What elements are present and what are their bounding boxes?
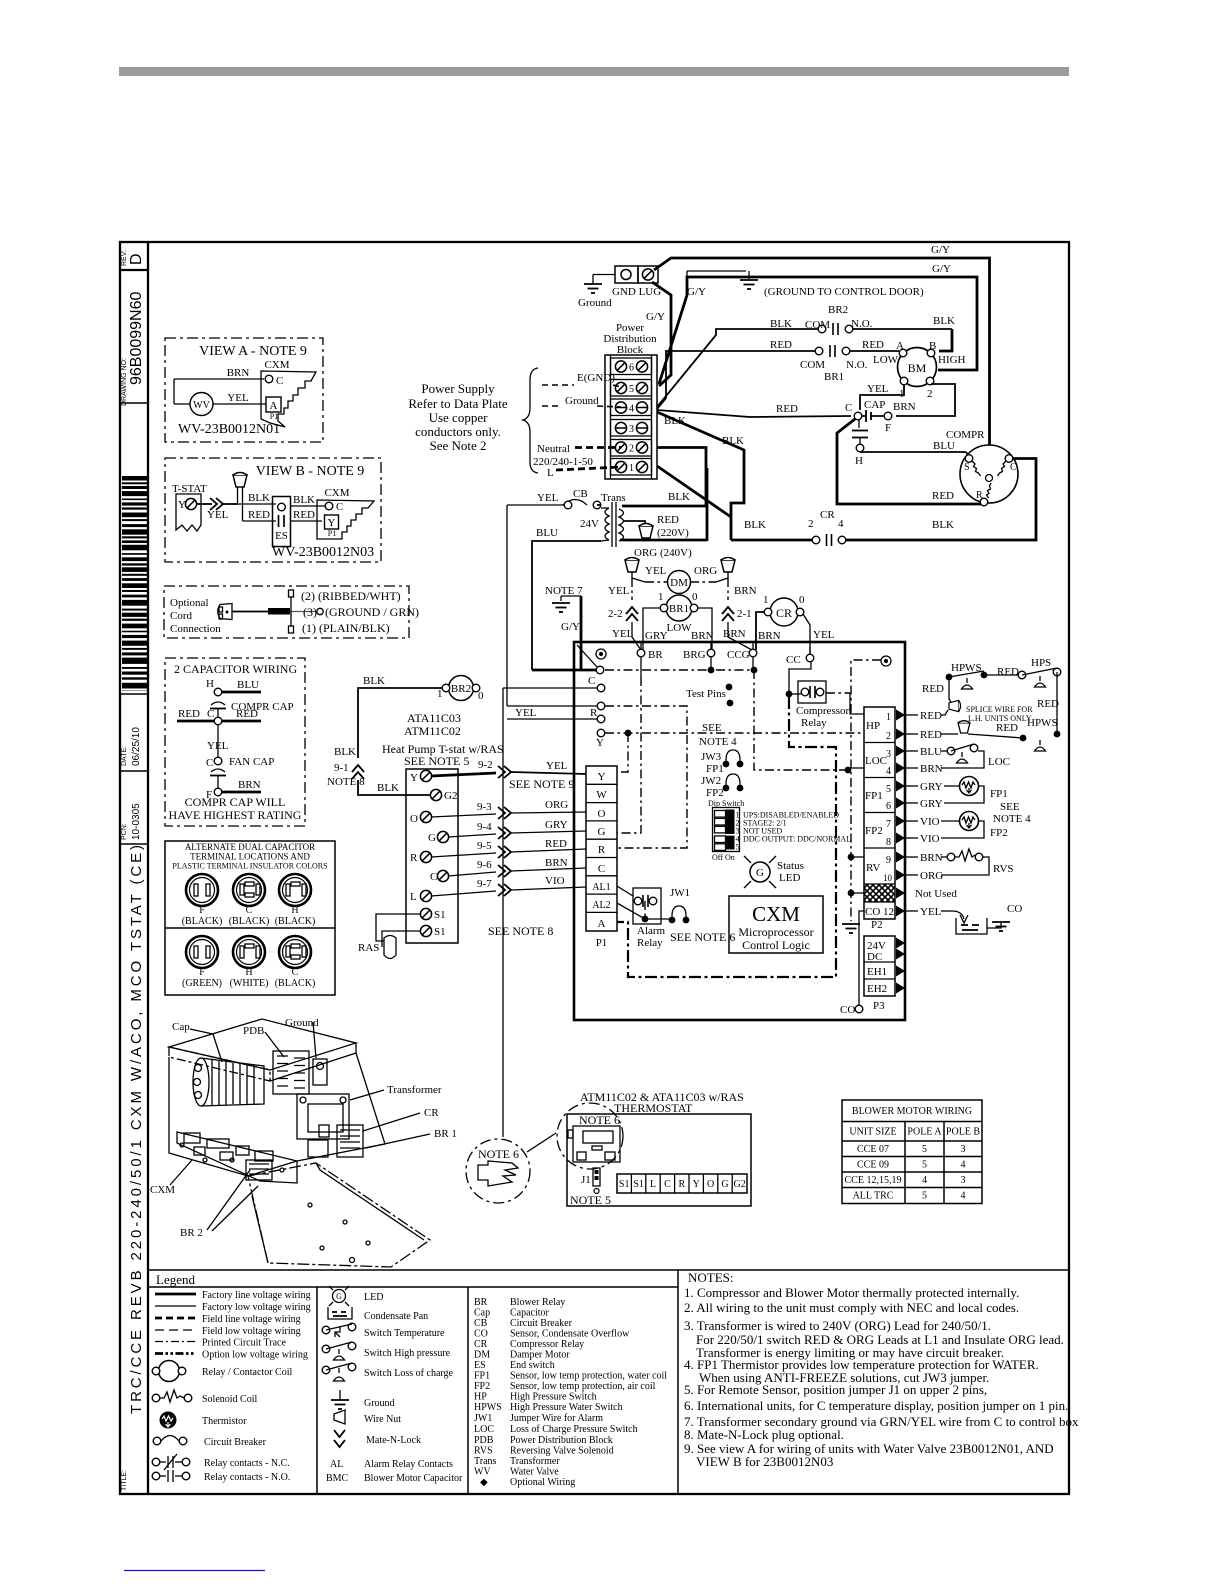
svg-text:Block: Block	[617, 344, 644, 356]
svg-text:CCE 12,15,19: CCE 12,15,19	[845, 1175, 902, 1186]
svg-text:BLU: BLU	[920, 746, 942, 758]
svg-text:Use copper: Use copper	[429, 410, 489, 425]
svg-text:JW1: JW1	[474, 1413, 492, 1424]
svg-text:CCG: CCG	[727, 649, 750, 661]
svg-text:Factory line voltage wiring: Factory line voltage wiring	[202, 1290, 311, 1301]
svg-text:2-1: 2-1	[737, 608, 752, 620]
svg-text:High Pressure Water Switch: High Pressure Water Switch	[510, 1402, 623, 1413]
svg-text:P1: P1	[596, 937, 608, 949]
svg-text:DRAWING NO:: DRAWING NO:	[121, 358, 128, 406]
svg-text:Condensate Pan: Condensate Pan	[364, 1311, 428, 1322]
svg-text:S: S	[964, 462, 970, 473]
svg-text:BRN: BRN	[545, 857, 568, 869]
svg-text:G/Y: G/Y	[687, 286, 706, 298]
svg-text:N.O.: N.O.	[851, 318, 873, 330]
svg-text:Relay: Relay	[801, 717, 827, 729]
svg-text:W: W	[596, 789, 607, 801]
svg-text:THERMOSTAT: THERMOSTAT	[614, 1101, 693, 1115]
svg-text:H: H	[855, 455, 863, 467]
svg-text:Sensor, Condensate Overflow: Sensor, Condensate Overflow	[510, 1329, 630, 1340]
svg-text:CC: CC	[786, 654, 801, 666]
svg-text:BLK: BLK	[334, 746, 356, 758]
svg-text:Optional Wiring: Optional Wiring	[510, 1477, 575, 1488]
svg-text:UNIT SIZE: UNIT SIZE	[849, 1127, 896, 1138]
svg-text:RED: RED	[657, 514, 679, 526]
svg-text:JW1: JW1	[670, 887, 690, 899]
svg-text:TITLE:: TITLE:	[121, 1470, 128, 1491]
svg-text:3: 3	[886, 749, 891, 760]
svg-text:YEL: YEL	[813, 629, 835, 641]
svg-text:REV:: REV:	[121, 250, 128, 266]
svg-text:H: H	[206, 678, 214, 690]
svg-text:5: 5	[629, 384, 634, 395]
svg-text:P1: P1	[328, 529, 336, 538]
svg-text:8: 8	[886, 837, 891, 848]
svg-text:F: F	[199, 905, 205, 916]
svg-text:Ground: Ground	[565, 395, 599, 407]
svg-text:WV-23B0012N03: WV-23B0012N03	[272, 545, 374, 560]
svg-text:C: C	[336, 501, 343, 513]
svg-text:5: 5	[736, 843, 740, 852]
svg-text:NOTES:: NOTES:	[688, 1270, 734, 1285]
svg-text:Switch Temperature: Switch Temperature	[364, 1328, 445, 1339]
svg-text:PCN:: PCN:	[121, 823, 128, 840]
svg-text:YEL: YEL	[920, 906, 942, 918]
svg-text:HAVE HIGHEST RATING: HAVE HIGHEST RATING	[169, 808, 302, 822]
svg-text:BRN: BRN	[920, 852, 943, 864]
svg-text:BLK: BLK	[664, 415, 686, 427]
svg-text:LED: LED	[364, 1292, 383, 1303]
svg-text:CAP: CAP	[864, 399, 885, 411]
svg-text:BR1: BR1	[669, 603, 689, 615]
svg-text:LOC: LOC	[865, 755, 887, 767]
svg-text:J1: J1	[581, 1174, 591, 1186]
svg-text:RED: RED	[862, 339, 884, 351]
svg-text:A: A	[598, 918, 606, 930]
svg-text:3: 3	[961, 1175, 966, 1186]
svg-text:Factory low voltage wiring: Factory low voltage wiring	[202, 1302, 311, 1313]
svg-text:CXM: CXM	[752, 902, 800, 926]
svg-text:HPWS: HPWS	[474, 1402, 502, 1413]
svg-text:Cap: Cap	[172, 1021, 190, 1033]
svg-text:G2: G2	[444, 790, 457, 802]
svg-text:O: O	[598, 808, 606, 820]
svg-text:2: 2	[927, 388, 933, 400]
svg-text:(BLACK): (BLACK)	[229, 916, 270, 927]
svg-text:BLOWER MOTOR WIRING: BLOWER MOTOR WIRING	[852, 1106, 972, 1117]
svg-text:06/25/10: 06/25/10	[131, 727, 142, 766]
svg-text:POLE B: POLE B	[946, 1127, 981, 1138]
svg-text:C: C	[664, 1179, 671, 1190]
svg-text:N.O.: N.O.	[846, 359, 868, 371]
svg-text:D: D	[128, 253, 145, 265]
svg-text:RVS: RVS	[474, 1446, 493, 1457]
svg-text:POLE A: POLE A	[907, 1127, 942, 1138]
svg-text:conductors only.: conductors only.	[415, 424, 501, 439]
svg-text:FP2: FP2	[474, 1381, 490, 1392]
svg-text:24V: 24V	[580, 518, 599, 530]
svg-text:PLASTIC TERMINAL INSULATOR COL: PLASTIC TERMINAL INSULATOR COLORS	[172, 862, 327, 871]
svg-text:Alarm: Alarm	[637, 925, 666, 937]
svg-text:COMPR: COMPR	[946, 429, 985, 441]
svg-text:0: 0	[692, 591, 698, 603]
svg-text:4: 4	[838, 518, 844, 530]
svg-text:C: C	[207, 708, 214, 720]
svg-text:VIEW B for 23B0012N03: VIEW B for 23B0012N03	[696, 1454, 833, 1469]
svg-text:A: A	[270, 400, 278, 412]
svg-text:Water Valve: Water Valve	[510, 1467, 559, 1478]
svg-text:L: L	[547, 467, 554, 479]
svg-text:PDB: PDB	[474, 1435, 494, 1446]
svg-text:BRN: BRN	[691, 630, 714, 642]
svg-text:BLK: BLK	[248, 492, 270, 504]
svg-text:HP: HP	[474, 1392, 487, 1403]
svg-text:R: R	[598, 844, 606, 856]
svg-text:RED: RED	[293, 509, 315, 521]
svg-text:YEL: YEL	[515, 707, 537, 719]
svg-text:0: 0	[799, 594, 805, 606]
svg-text:Y: Y	[598, 771, 606, 783]
svg-text:Loss of Charge Pressure Switch: Loss of Charge Pressure Switch	[510, 1424, 638, 1435]
svg-text:Trans: Trans	[601, 492, 626, 504]
svg-text:6: 6	[629, 363, 634, 374]
svg-text:C: C	[1010, 462, 1017, 473]
svg-text:2: 2	[886, 731, 891, 742]
svg-text:FP2: FP2	[865, 825, 883, 837]
svg-text:CR: CR	[820, 509, 835, 521]
svg-text:3: 3	[961, 1144, 966, 1155]
svg-text:SEE: SEE	[1000, 801, 1020, 813]
svg-text:G2: G2	[733, 1179, 745, 1190]
svg-text:YEL: YEL	[546, 760, 568, 772]
svg-text:Control Logic: Control Logic	[742, 938, 810, 952]
svg-text:(GROUND TO CONTROL DOOR): (GROUND TO CONTROL DOOR)	[764, 286, 924, 298]
svg-text:YEL: YEL	[207, 509, 229, 521]
svg-text:O: O	[410, 813, 418, 825]
svg-text:B: B	[929, 340, 936, 352]
svg-text:9-2: 9-2	[478, 759, 493, 771]
svg-text:3: 3	[629, 424, 634, 435]
svg-text:6. International units, for C: 6. International units, for C temperatur…	[684, 1398, 1068, 1413]
svg-text:LOW: LOW	[873, 354, 899, 366]
svg-text:Relay contacts - N.C.: Relay contacts - N.C.	[204, 1458, 290, 1469]
svg-text:GRY: GRY	[645, 630, 668, 642]
svg-text:VIO: VIO	[920, 816, 940, 828]
svg-text:Ground: Ground	[578, 297, 612, 309]
svg-text:4: 4	[629, 404, 634, 415]
svg-text:Circuit Breaker: Circuit Breaker	[204, 1437, 267, 1448]
svg-text:G: G	[721, 1179, 728, 1190]
svg-text:Microprocessor: Microprocessor	[738, 925, 813, 939]
svg-text:C: C	[292, 967, 299, 978]
svg-text:9-1: 9-1	[334, 762, 349, 774]
svg-text:BLU: BLU	[933, 440, 955, 452]
svg-text:Reversing Valve Solenoid: Reversing Valve Solenoid	[510, 1446, 614, 1457]
svg-text:SEE NOTE 8: SEE NOTE 8	[488, 924, 553, 938]
svg-text:Compressor: Compressor	[796, 705, 850, 717]
svg-text:P3: P3	[873, 1000, 885, 1012]
svg-text:CO: CO	[1007, 903, 1022, 915]
svg-text:Off On: Off On	[712, 853, 735, 862]
svg-text:Dip Switch: Dip Switch	[708, 799, 744, 808]
svg-text:L: L	[410, 891, 417, 903]
svg-text:BR: BR	[648, 649, 663, 661]
svg-text:LED: LED	[779, 872, 800, 884]
svg-text:NOTE 7: NOTE 7	[545, 585, 583, 597]
svg-text:4: 4	[922, 1175, 927, 1186]
svg-text:LOW: LOW	[666, 622, 692, 634]
svg-text:YEL: YEL	[608, 585, 630, 597]
svg-text:NOTE 8: NOTE 8	[327, 776, 365, 788]
svg-text:Switch Loss of charge: Switch Loss of charge	[364, 1368, 454, 1379]
svg-text:1: 1	[886, 712, 891, 723]
svg-text:Refer to Data Plate: Refer to Data Plate	[408, 396, 507, 411]
svg-text:SEE NOTE 9: SEE NOTE 9	[509, 777, 574, 791]
svg-text:9-5: 9-5	[477, 840, 492, 852]
svg-text:E(GND): E(GND)	[577, 372, 615, 384]
svg-text:96B0099N60: 96B0099N60	[128, 291, 145, 385]
svg-text:BLK: BLK	[668, 491, 690, 503]
svg-text:P1: P1	[270, 412, 278, 421]
svg-text:G: G	[336, 1292, 342, 1301]
svg-text:RVS: RVS	[993, 863, 1014, 875]
svg-text:YEL: YEL	[612, 628, 634, 640]
svg-text:DM: DM	[474, 1350, 490, 1361]
svg-text:RED: RED	[997, 666, 1019, 678]
svg-text:2. All wiring to the unit must: 2. All wiring to the unit must comply wi…	[684, 1300, 1019, 1315]
svg-text:Transformer: Transformer	[387, 1084, 442, 1096]
svg-text:Sensor, low temp protection, w: Sensor, low temp protection, water coil	[510, 1371, 667, 1382]
svg-text:L: L	[650, 1179, 656, 1190]
svg-text:JW2: JW2	[701, 775, 721, 787]
svg-text:Relay: Relay	[637, 937, 663, 949]
svg-text:A: A	[896, 340, 904, 352]
svg-text:5: 5	[922, 1191, 927, 1202]
svg-text:F: F	[199, 967, 205, 978]
svg-text:G: G	[428, 832, 436, 844]
svg-text:FP2: FP2	[990, 827, 1008, 839]
svg-text:WV: WV	[193, 400, 210, 411]
svg-text:COM: COM	[805, 319, 830, 331]
svg-text:BRN: BRN	[723, 628, 746, 640]
svg-text:Ground: Ground	[364, 1398, 395, 1409]
svg-text:7: 7	[886, 819, 891, 830]
svg-text:G/Y: G/Y	[646, 311, 665, 323]
svg-text:CO 12: CO 12	[865, 906, 894, 918]
svg-text:TERMINAL LOCATIONS AND: TERMINAL LOCATIONS AND	[190, 852, 310, 862]
svg-text:Status: Status	[777, 860, 804, 872]
svg-text:CR: CR	[776, 606, 792, 620]
svg-text:PDB: PDB	[243, 1025, 264, 1037]
svg-text:(WHITE): (WHITE)	[230, 978, 269, 989]
svg-text:BMC: BMC	[326, 1473, 349, 1484]
svg-text:RED: RED	[920, 710, 942, 722]
svg-text:(GROUND / GRN): (GROUND / GRN)	[325, 605, 419, 619]
svg-text:Y: Y	[328, 517, 336, 529]
svg-text:9-7: 9-7	[477, 878, 492, 890]
svg-text:BR 2: BR 2	[180, 1227, 203, 1239]
svg-text:(2) (RIBBED/WHT): (2) (RIBBED/WHT)	[301, 589, 401, 603]
svg-text:1. Compressor and Blower Motor: 1. Compressor and Blower Motor thermally…	[684, 1285, 1019, 1300]
svg-text:FP1: FP1	[990, 788, 1008, 800]
svg-text:GRY: GRY	[920, 781, 943, 793]
svg-text:AL: AL	[330, 1459, 343, 1470]
svg-text:RED: RED	[922, 683, 944, 695]
svg-text:2: 2	[629, 444, 634, 455]
svg-text:(1) (PLAIN/BLK): (1) (PLAIN/BLK)	[302, 621, 390, 635]
svg-text:ORG (240V): ORG (240V)	[634, 547, 692, 559]
svg-text:G/Y: G/Y	[932, 263, 951, 275]
svg-text:GND LUG: GND LUG	[612, 286, 661, 298]
svg-text:Connection: Connection	[170, 623, 221, 635]
svg-text:C: C	[845, 402, 852, 414]
svg-text:RED: RED	[770, 339, 792, 351]
svg-text:HP: HP	[866, 720, 880, 732]
svg-text:BR: BR	[474, 1297, 488, 1308]
svg-text:CCE 07: CCE 07	[857, 1144, 889, 1155]
svg-text:VIO: VIO	[545, 875, 565, 887]
svg-text:BLK: BLK	[377, 782, 399, 794]
svg-text:RAS: RAS	[358, 942, 379, 954]
svg-text:SEE NOTE 6: SEE NOTE 6	[670, 930, 735, 944]
svg-text:9-4: 9-4	[477, 821, 492, 833]
svg-text:(BLACK): (BLACK)	[275, 978, 316, 989]
svg-text:BR2: BR2	[828, 304, 848, 316]
svg-text:Transformer: Transformer	[510, 1456, 560, 1467]
svg-text:RED: RED	[920, 729, 942, 741]
svg-text:Field low voltage wiring: Field low voltage wiring	[202, 1326, 301, 1337]
svg-text:Thermistor: Thermistor	[202, 1416, 247, 1427]
svg-text:Trans: Trans	[474, 1456, 497, 1467]
svg-text:3. Transformer is wired to 240: 3. Transformer is wired to 240V (ORG) Le…	[684, 1318, 991, 1333]
svg-text:Mate-N-Lock: Mate-N-Lock	[366, 1435, 421, 1446]
svg-text:Blower Motor Capacitor: Blower Motor Capacitor	[364, 1473, 463, 1484]
svg-text:CB: CB	[573, 488, 588, 500]
svg-text:SEE NOTE 5: SEE NOTE 5	[404, 754, 469, 768]
svg-text:Circuit Breaker: Circuit Breaker	[510, 1318, 573, 1329]
svg-text:Legend: Legend	[156, 1272, 195, 1287]
svg-text:DM: DM	[670, 577, 688, 589]
svg-text:BRN: BRN	[734, 585, 757, 597]
svg-text:Compressor Relay: Compressor Relay	[510, 1339, 584, 1350]
svg-text:EH1: EH1	[867, 966, 887, 978]
svg-text:FP2: FP2	[706, 787, 724, 799]
svg-text:O: O	[707, 1179, 714, 1190]
svg-text:DATE:: DATE:	[121, 746, 128, 766]
svg-text:P2: P2	[871, 919, 883, 931]
svg-text:R: R	[410, 852, 418, 864]
svg-text:1: 1	[437, 688, 443, 700]
svg-text:BRG: BRG	[683, 649, 706, 661]
svg-text:BLK: BLK	[932, 519, 954, 531]
svg-text:JW3: JW3	[701, 751, 722, 763]
svg-text:9-3: 9-3	[477, 801, 492, 813]
svg-text:NOTE 6: NOTE 6	[579, 1113, 620, 1127]
svg-text:RV: RV	[866, 862, 880, 874]
svg-text:BLK: BLK	[293, 494, 315, 506]
svg-text:End switch: End switch	[510, 1360, 555, 1371]
svg-text:BRN: BRN	[238, 779, 261, 791]
svg-text:RED: RED	[932, 490, 954, 502]
svg-text:BRN: BRN	[758, 630, 781, 642]
svg-text:Printed Circuit Trace: Printed Circuit Trace	[202, 1338, 286, 1349]
svg-text:Damper Motor: Damper Motor	[510, 1350, 570, 1361]
svg-text:BM: BM	[908, 361, 927, 375]
svg-text:C: C	[598, 863, 605, 875]
svg-text:VIEW A - NOTE 9: VIEW A - NOTE 9	[199, 344, 307, 359]
svg-text:ORG: ORG	[545, 799, 568, 811]
svg-text:CCE 09: CCE 09	[857, 1160, 889, 1171]
svg-text:4: 4	[886, 766, 891, 777]
svg-text:BLK: BLK	[722, 435, 744, 447]
svg-text:EH2: EH2	[867, 983, 887, 995]
svg-text:4: 4	[961, 1191, 966, 1202]
svg-text:CXM: CXM	[324, 487, 349, 499]
svg-text:C: C	[430, 871, 437, 883]
svg-text:RED: RED	[236, 708, 258, 720]
svg-text:NOTE 4: NOTE 4	[993, 813, 1031, 825]
svg-text:R: R	[678, 1179, 685, 1190]
svg-text:CO: CO	[474, 1329, 488, 1340]
svg-text:BR1: BR1	[824, 371, 844, 383]
svg-text:GRY: GRY	[545, 819, 568, 831]
svg-text:S1: S1	[619, 1179, 630, 1190]
svg-text:CO: CO	[840, 1004, 855, 1016]
svg-text:YEL: YEL	[207, 740, 229, 752]
svg-text:CB: CB	[474, 1318, 488, 1329]
svg-text:BRN: BRN	[920, 763, 943, 775]
svg-text:BRN: BRN	[893, 401, 916, 413]
svg-text:10: 10	[883, 873, 893, 883]
svg-text:NOTE 5: NOTE 5	[570, 1193, 611, 1207]
svg-text:Neutral: Neutral	[537, 443, 570, 455]
svg-text:SEE: SEE	[702, 722, 722, 734]
svg-text:6: 6	[886, 801, 891, 812]
svg-text:(3): (3)	[303, 605, 317, 619]
svg-text:ALTERNATE DUAL CAPACITOR: ALTERNATE DUAL CAPACITOR	[185, 842, 315, 852]
svg-text:Sensor, low temp protection, a: Sensor, low temp protection, air coil	[510, 1381, 656, 1392]
svg-text:5: 5	[922, 1160, 927, 1171]
svg-text:S1: S1	[633, 1179, 644, 1190]
svg-text:2: 2	[808, 518, 814, 530]
svg-text:G: G	[598, 826, 606, 838]
svg-text:WV-23B0012N01: WV-23B0012N01	[178, 422, 280, 437]
svg-text:Cap: Cap	[474, 1308, 490, 1319]
svg-text:(BLACK): (BLACK)	[275, 916, 316, 927]
svg-text:COMPR CAP WILL: COMPR CAP WILL	[185, 795, 286, 809]
svg-text:H: H	[245, 967, 252, 978]
svg-text:LOC: LOC	[988, 756, 1010, 768]
svg-text:BLK: BLK	[744, 519, 766, 531]
svg-text:TRC/CCE REVB 220-240/50/1 CXM: TRC/CCE REVB 220-240/50/1 CXM W/ACO, MCO…	[128, 842, 145, 1414]
svg-text:RED: RED	[1037, 698, 1059, 710]
svg-text:G/Y: G/Y	[561, 621, 580, 633]
svg-text:8. Mate-N-Lock plug optional.: 8. Mate-N-Lock plug optional.	[684, 1427, 844, 1442]
svg-text:Optional: Optional	[170, 597, 209, 609]
svg-text:CXM: CXM	[150, 1184, 175, 1196]
svg-text:RED: RED	[996, 722, 1018, 734]
svg-text:BLK: BLK	[363, 675, 385, 687]
svg-text:Relay contacts - N.O.: Relay contacts - N.O.	[204, 1472, 290, 1483]
svg-text:5. For Remote Sensor, position: 5. For Remote Sensor, position jumper J1…	[684, 1382, 987, 1397]
svg-text:0: 0	[478, 690, 484, 702]
svg-text:BR 1: BR 1	[434, 1128, 457, 1140]
svg-text:HPS: HPS	[1031, 657, 1051, 669]
svg-text:ALL TRC: ALL TRC	[853, 1191, 894, 1202]
svg-text:HIGH: HIGH	[938, 354, 966, 366]
svg-text:ES: ES	[275, 530, 288, 542]
svg-text:Cord: Cord	[170, 610, 193, 622]
